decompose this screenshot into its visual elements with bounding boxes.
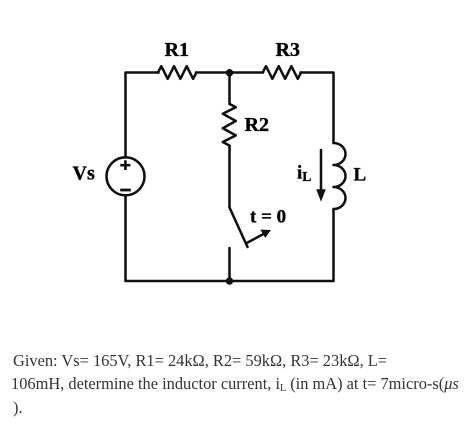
minus sign of source bbox=[120, 189, 131, 192]
switch arrow head bbox=[260, 230, 271, 238]
wire node B to R2 bbox=[228, 73, 231, 104]
inductor current arrow iL bbox=[320, 150, 323, 191]
inductor L bbox=[334, 143, 346, 209]
junction node C dot bbox=[226, 277, 233, 284]
wire inductor bottom to bottom-right corner bbox=[230, 209, 334, 281]
wire switch bottom stub bbox=[228, 248, 231, 281]
problem statement paragraph bbox=[0, 0, 474, 1]
svg-text:iL: iL bbox=[297, 163, 311, 184]
wire node B to R3 bbox=[230, 71, 264, 74]
svg-text:R2: R2 bbox=[245, 114, 269, 136]
wire top-left (node A to R1) bbox=[126, 73, 159, 158]
resistor R1 bbox=[158, 66, 196, 79]
wire R3 to inductor top bbox=[300, 73, 333, 144]
plus sign of source bbox=[120, 160, 130, 170]
wire bottom-left bbox=[126, 195, 230, 281]
resistor R3 bbox=[263, 66, 301, 79]
iL arrow head bbox=[316, 189, 326, 202]
resistor R2 bbox=[223, 104, 236, 146]
svg-text:L: L bbox=[354, 165, 367, 186]
svg-text:R3: R3 bbox=[276, 39, 300, 61]
svg-text:t = 0: t = 0 bbox=[250, 207, 286, 228]
voltage source Vs circle bbox=[107, 157, 145, 195]
switch closing arrow bbox=[246, 234, 263, 243]
wire R1 to node B bbox=[196, 71, 230, 74]
svg-text:R1: R1 bbox=[165, 39, 189, 61]
switch blade (open) bbox=[230, 208, 248, 248]
junction node B dot bbox=[226, 69, 233, 76]
svg-text:Vs: Vs bbox=[73, 163, 95, 185]
wire R2 to switch bbox=[228, 146, 231, 208]
